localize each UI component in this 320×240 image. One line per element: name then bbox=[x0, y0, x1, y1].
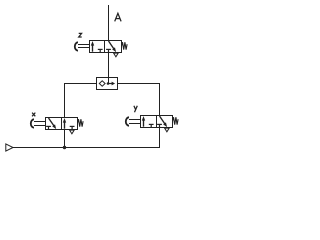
shuttle valve body bbox=[97, 78, 118, 90]
valve z divider bbox=[104, 41, 106, 53]
valve x divider bbox=[61, 118, 63, 130]
valve z return spring bbox=[122, 42, 128, 49]
valve z left position flow arrow bbox=[91, 41, 94, 52]
valve x right position blocked port bbox=[70, 126, 75, 129]
node A label bbox=[115, 13, 121, 21]
wire output line to port A bbox=[108, 5, 110, 41]
valve y right position blocked port bbox=[157, 124, 162, 127]
valve y right position flow path to exhaust bbox=[160, 116, 168, 127]
supply source triangle bbox=[6, 144, 13, 151]
valve x left position flow path to exhaust bbox=[49, 118, 57, 129]
label z bbox=[79, 33, 82, 37]
valve y left position flow arrow bbox=[142, 116, 145, 127]
wire valve z supply port to shuttle valve output bbox=[108, 53, 110, 84]
valve z right position blocked port bbox=[106, 49, 111, 52]
valve y pushbutton actuator bbox=[126, 117, 141, 125]
valve x return spring bbox=[78, 119, 84, 126]
valve z left position blocked port bbox=[98, 49, 103, 52]
valve 3/2 y body bbox=[141, 116, 173, 128]
wire shuttle left input from valve x output bbox=[65, 84, 97, 118]
valve z pushbutton actuator bbox=[75, 42, 90, 50]
wire shuttle right input from valve y output bbox=[118, 84, 160, 116]
shuttle valve junction dot bbox=[107, 82, 110, 85]
valve 3/2 x body bbox=[46, 118, 78, 130]
label x bbox=[32, 113, 35, 117]
valve x exhaust triangle bbox=[70, 130, 75, 134]
shuttle valve arrow bbox=[108, 82, 115, 86]
valve 3/2 z body bbox=[90, 41, 122, 53]
valve y return spring bbox=[173, 117, 179, 124]
valve z exhaust triangle bbox=[114, 53, 119, 57]
valve y divider bbox=[156, 116, 158, 128]
valve x right position flow arrow bbox=[63, 118, 66, 129]
valve y exhaust triangle bbox=[165, 128, 170, 132]
valve x left position blocked port bbox=[46, 126, 51, 129]
shuttle valve ball diamond bbox=[99, 81, 105, 86]
valve y left position blocked port bbox=[149, 124, 154, 127]
valve x pushbutton actuator bbox=[31, 119, 46, 127]
wire valve x supply port down to rail bbox=[64, 130, 66, 148]
junction dot on supply rail bbox=[63, 146, 66, 149]
wire supply rail to valve y supply port bbox=[13, 128, 160, 148]
valve z right position flow path to exhaust bbox=[109, 41, 117, 52]
label y bbox=[134, 106, 137, 113]
